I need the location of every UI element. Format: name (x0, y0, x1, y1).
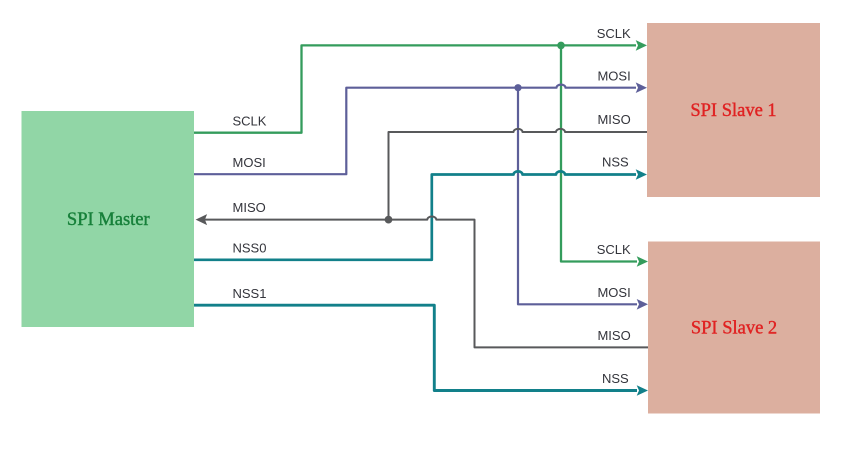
arrowhead MISO into master (196, 214, 208, 225)
svg-text:SPI Slave 1: SPI Slave 1 (690, 101, 776, 121)
wire NSS1 master to slave2 (194, 305, 637, 390)
svg-text:NSS: NSS (602, 154, 629, 169)
arrowhead NSS0 into slave1 (636, 169, 647, 180)
svg-text:NSS1: NSS1 (233, 286, 267, 301)
junction dot MISO (385, 216, 393, 224)
arrowhead SCLK into slave1 (636, 40, 647, 51)
block SPI Slave 2 (648, 242, 820, 414)
svg-text:MISO: MISO (597, 112, 630, 127)
wire NSS0 master to slave1 (194, 171, 636, 259)
arrowhead MOSI into slave2 (637, 299, 648, 310)
svg-text:NSS: NSS (602, 371, 629, 386)
wire MISO slave2 to master (205, 217, 648, 348)
wire MOSI master to slave1 (194, 85, 636, 175)
svg-text:MOSI: MOSI (597, 68, 630, 83)
svg-text:SCLK: SCLK (597, 242, 631, 257)
svg-text:MOSI: MOSI (597, 285, 630, 300)
wire SCLK master to slave1 (194, 45, 636, 132)
block SPI Slave 1 (647, 23, 820, 197)
svg-text:MISO: MISO (233, 200, 266, 215)
svg-text:SCLK: SCLK (233, 113, 267, 128)
arrowhead SCLK into slave2 (637, 256, 648, 267)
arrowhead NSS1 into slave2 (637, 385, 648, 396)
junction dot MOSI (514, 84, 521, 91)
svg-text:SCLK: SCLK (597, 26, 631, 41)
junction dot SCLK (557, 42, 565, 50)
svg-text:MOSI: MOSI (233, 155, 266, 170)
arrowhead MOSI into slave1 (636, 82, 647, 93)
svg-text:NSS0: NSS0 (233, 240, 267, 255)
svg-text:SPI Master: SPI Master (67, 210, 150, 230)
wire MISO branch from slave1 (389, 129, 648, 220)
svg-text:MISO: MISO (597, 328, 630, 343)
block SPI Master (22, 111, 195, 327)
svg-text:SPI Slave 2: SPI Slave 2 (691, 318, 777, 338)
wire MOSI branch to slave2 (518, 88, 637, 305)
wire SCLK branch to slave2 (561, 45, 637, 261)
